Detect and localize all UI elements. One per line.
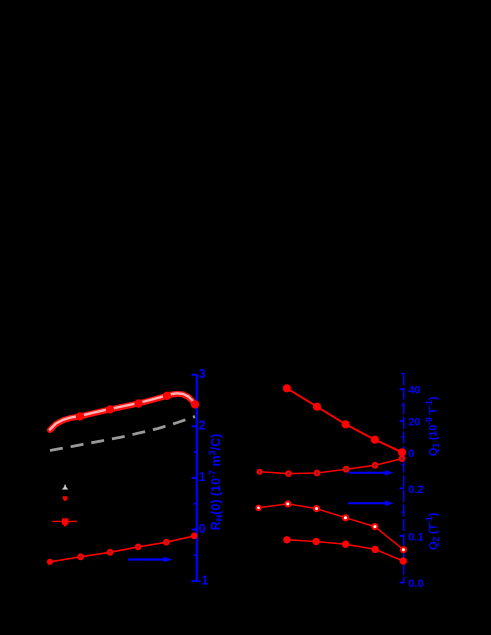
svg-text:0: 0 bbox=[408, 448, 414, 460]
bottom-left curve marker dark centers bbox=[79, 541, 168, 558]
top-left red curve pink core bbox=[50, 393, 195, 429]
legend red line with square marker bbox=[52, 518, 77, 526]
top-left curve markers bbox=[76, 392, 199, 421]
lower-right filled markers bbox=[283, 536, 407, 565]
lower-right filled-circle curve bbox=[287, 540, 403, 561]
svg-text:0.1: 0.1 bbox=[408, 531, 423, 543]
legend gray triangle marker bbox=[62, 485, 68, 490]
svg-text:0: 0 bbox=[199, 522, 206, 536]
svg-text:40: 40 bbox=[408, 385, 420, 397]
bottom-left red curve bbox=[50, 536, 194, 562]
svg-text:0.0: 0.0 bbox=[408, 578, 423, 590]
right axis major ticks bbox=[400, 389, 404, 582]
top-left red curve thick underlay bbox=[50, 394, 195, 430]
svg-text:20: 20 bbox=[408, 417, 420, 429]
svg-text:-1: -1 bbox=[197, 574, 208, 588]
right top steep curve markers bbox=[283, 384, 406, 456]
left panel blue arrow bbox=[128, 557, 172, 562]
left axis minor ticks bbox=[194, 401, 197, 556]
left axis title R_H(0) (10^-7 m3/C) bbox=[208, 434, 225, 531]
legend red dot marker bbox=[63, 496, 68, 501]
right flat curve markers (dark-centred) bbox=[257, 455, 406, 477]
left panel right-side blue axis line bbox=[196, 374, 198, 581]
right axis minor ticks bbox=[401, 373, 404, 559]
left axis major ticks bbox=[192, 375, 197, 581]
svg-text:0.2: 0.2 bbox=[408, 484, 423, 496]
lower right panel blue arrow bbox=[348, 501, 394, 507]
right top steep red curve bbox=[287, 388, 402, 452]
left axis tick labels bbox=[197, 367, 208, 588]
right flat curve bbox=[260, 459, 403, 474]
lower-right open-circle markers (white centres) bbox=[255, 500, 407, 553]
svg-text:1: 1 bbox=[199, 470, 206, 484]
bottom-left curve markers bbox=[47, 533, 198, 565]
svg-text:2: 2 bbox=[199, 418, 206, 432]
gray dashed curve bbox=[50, 417, 195, 451]
svg-text:3: 3 bbox=[199, 367, 206, 381]
lower-right open-circle curve bbox=[259, 504, 404, 550]
right upper panel blue arrow bbox=[349, 470, 394, 476]
right panel dashed blue axis bbox=[403, 373, 405, 583]
right axis tick labels bbox=[408, 385, 423, 591]
